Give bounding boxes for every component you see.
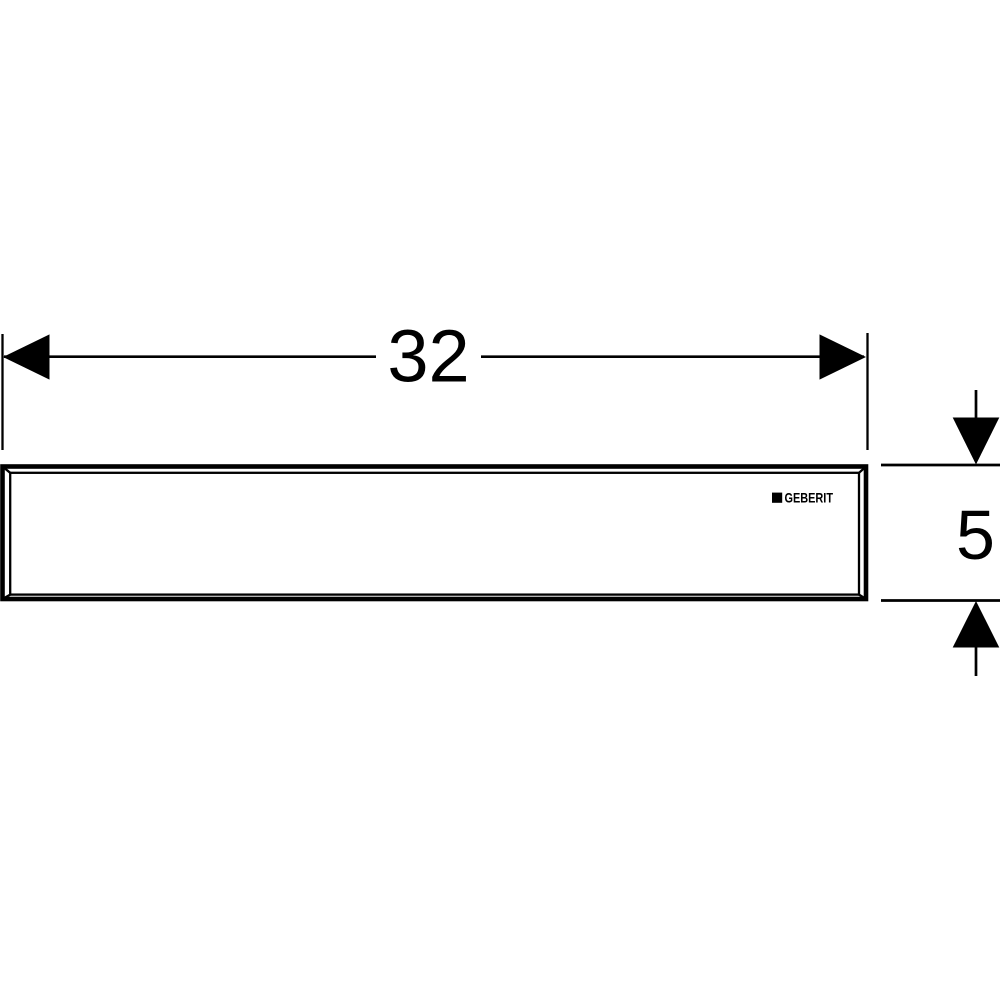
svg-text:32: 32: [387, 315, 469, 398]
extension line top (height 5): [881, 464, 1000, 467]
bevel edge top-right: [859, 467, 866, 473]
bevel edge top-left: [3, 467, 11, 473]
cover plate outer outline: [3, 467, 867, 600]
bevel edge bottom-right: [859, 595, 866, 599]
dimension leader above (height 5): [975, 390, 978, 425]
extension line bottom (height 5): [881, 599, 1000, 602]
dimension leader below (height 5): [975, 640, 978, 676]
Geberit logo square: [772, 493, 782, 503]
arrowhead up of dimension 5: [953, 601, 1000, 648]
svg-text:5: 5: [956, 496, 995, 574]
extension line right (width 32): [866, 333, 868, 450]
dimension line 32 right segment: [481, 355, 864, 358]
extension line left (width 32): [1, 334, 3, 450]
dimension line 32 left segment: [4, 355, 376, 358]
bevel edge bottom-left: [3, 595, 11, 599]
arrowhead down of dimension 5: [953, 418, 1000, 465]
svg-text:GEBERIT: GEBERIT: [785, 491, 834, 506]
cover plate inner face outline: [10, 473, 859, 595]
arrowhead left of dimension 32: [3, 334, 50, 379]
arrowhead right of dimension 32: [820, 334, 867, 379]
